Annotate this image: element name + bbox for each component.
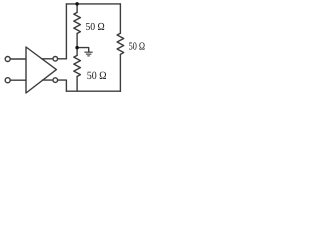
- wire left rail top segment: [76, 4, 78, 13]
- wire between R1 and mid junction: [76, 34, 78, 56]
- input terminal circle upper: [5, 57, 10, 62]
- wire right rail top segment: [119, 4, 121, 33]
- junction dot mid (ground node): [75, 46, 79, 50]
- wire input upper: [10, 58, 26, 60]
- wire input lower: [10, 79, 26, 81]
- op-amp upper output terminal circle: [53, 57, 58, 62]
- wire top-left vertical to upper output: [65, 4, 67, 59]
- resistor R2 zigzag (lower left, 50 ohm): [74, 55, 81, 76]
- op-amp upper output stub: [42, 58, 53, 60]
- op-amp lower output terminal circle: [53, 78, 58, 83]
- ground bar 1: [84, 52, 92, 53]
- label R1 value 50 ohm: [86, 23, 104, 30]
- wire top horizontal: [66, 3, 120, 5]
- op-amp U1 triangle: [26, 47, 56, 93]
- ground bar 3: [87, 55, 90, 56]
- resistor R3 zigzag (right, 50 ohm): [117, 33, 124, 54]
- resistor R1 zigzag (upper left, 50 ohm): [74, 12, 81, 33]
- wire upper output to vertical: [58, 58, 67, 60]
- label R3 value 50 ohm: [129, 42, 145, 49]
- op-amp lower output stub: [43, 79, 53, 81]
- ground bar 2: [86, 54, 92, 55]
- wire below R2 to bottom: [76, 77, 78, 92]
- wire lower output to bottom: [58, 80, 67, 91]
- wire below R3 to bottom: [119, 54, 121, 91]
- wire bottom horizontal: [66, 90, 120, 92]
- wire mid junction to ground: [77, 48, 89, 52]
- junction dot top: [75, 2, 79, 6]
- input terminal circle lower: [5, 78, 10, 83]
- label R2 value 50 ohm: [87, 72, 106, 80]
